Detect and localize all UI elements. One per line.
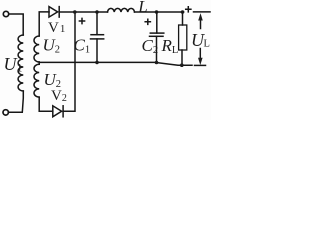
resistor RL <box>182 12 184 25</box>
transformer primary winding U1 <box>18 35 23 91</box>
wire primary bottom to T2 <box>9 91 23 112</box>
wire V2 cathode up to top rail <box>63 12 75 111</box>
node dot C2 bottom <box>155 61 159 65</box>
svg-text:U2: U2 <box>44 70 62 90</box>
svg-text:RL: RL <box>161 36 179 56</box>
transformer secondary winding U2 (top half) <box>34 36 39 62</box>
svg-text:C2: C2 <box>142 36 159 56</box>
node dot C1 top <box>95 10 99 14</box>
plus sign C2 <box>145 19 150 24</box>
inductor L <box>108 8 135 12</box>
svg-text:L: L <box>137 0 147 16</box>
diode V2 <box>53 106 62 117</box>
svg-text:V2: V2 <box>51 88 67 104</box>
svg-text:V1: V1 <box>48 20 65 36</box>
node dot RL bottom <box>180 63 184 67</box>
plus sign (output +) <box>186 7 191 12</box>
svg-text:U2: U2 <box>43 36 61 56</box>
UL arrow down <box>199 49 201 59</box>
wire T1 to primary top <box>9 14 23 35</box>
diode V1 <box>49 7 58 18</box>
node dot V2 join <box>73 10 77 14</box>
capacitor C1 <box>96 12 98 35</box>
svg-text:L: L <box>204 39 210 50</box>
transformer secondary winding U2 (bottom half) <box>34 64 39 97</box>
center tap stub <box>38 62 40 64</box>
top rail (inductor to RL corner) <box>135 11 184 13</box>
top rail right segment <box>194 11 211 13</box>
terminal T2 (bottom-left input) <box>3 110 8 115</box>
node dot C1 bottom <box>95 61 99 65</box>
node dot RL top <box>181 10 185 14</box>
ground rail (center tap to right) <box>39 62 192 65</box>
svg-text:U1: U1 <box>4 54 23 75</box>
top rail (V1 cathode to inductor) <box>59 11 107 13</box>
capacitor C2 <box>156 12 158 33</box>
svg-text:C1: C1 <box>74 36 91 56</box>
wire secondary top to diode V1 anode <box>39 12 49 36</box>
terminal T1 (top-left input) <box>3 11 8 16</box>
ground rail right stub under arrow <box>195 64 206 66</box>
wire secondary bottom to diode V2 anode <box>39 97 53 111</box>
UL arrow up <box>200 19 202 29</box>
plus sign C1 <box>79 18 84 23</box>
node dot C2 top <box>155 10 159 14</box>
